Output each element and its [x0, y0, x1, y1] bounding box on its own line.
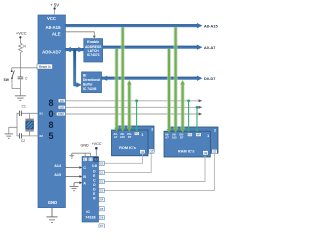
pin CE (ROM 1)	[140, 150, 145, 154]
svg-text:Reset In: Reset In	[39, 65, 51, 69]
svg-text:RD: RD	[135, 133, 139, 136]
svg-text:C2: C2	[21, 139, 25, 143]
pin WR (RAM)	[196, 133, 202, 137]
pin RD (RAM)	[187, 133, 192, 137]
svg-text:R: R	[23, 44, 26, 48]
buffer IC74245	[82, 72, 102, 93]
wire +5V to 8085 VCC	[54, 9, 56, 15]
pin CE (ROM 2)	[149, 149, 154, 153]
pin CE (RAM 2)	[212, 149, 217, 153]
green bus drop A0-A7 to ROM	[114, 49, 119, 132]
svg-text:A0-A7: A0-A7	[204, 45, 216, 50]
wire RD line	[65, 99, 202, 102]
wire A15 to decoder B	[65, 175, 82, 178]
wire X1 pin	[21, 112, 38, 114]
svg-text:0: 0	[48, 109, 53, 119]
svg-text:Directional: Directional	[83, 78, 100, 82]
svg-text:+VCC: +VCC	[92, 142, 102, 146]
ROM back block 2	[116, 126, 154, 152]
decoder IC74138	[82, 157, 98, 223]
crystal X1	[25, 113, 33, 136]
pin Reset In	[37, 64, 53, 69]
svg-text:ALE: ALE	[52, 31, 61, 36]
ground (decoder enables)	[70, 155, 75, 158]
wire A14 to decoder C	[65, 166, 82, 169]
svg-text:A7: A7	[114, 135, 118, 139]
wire WR line	[65, 106, 202, 109]
resistor R	[19, 43, 27, 53]
pin RD	[58, 99, 65, 103]
wire decoder A to ground	[74, 181, 82, 186]
wire CE2 ROM to decoder O1	[104, 153, 151, 172]
svg-text:O5: O5	[100, 208, 104, 211]
svg-text:Buffer: Buffer	[83, 82, 93, 86]
svg-text:2: 2	[151, 128, 153, 132]
pin E1 (decoder)	[83, 157, 87, 161]
ROM front block 1	[112, 130, 149, 156]
node +VCC (decoder enable)	[92, 142, 102, 157]
wire AD bus down to buffer	[73, 50, 82, 88]
svg-text:CE: CE	[213, 151, 217, 154]
ground (decoder A input)	[70, 187, 79, 191]
pin WR	[58, 105, 65, 109]
pin IO/M	[56, 112, 65, 116]
ground (crystal)	[5, 134, 13, 138]
svg-text:O: O	[93, 183, 96, 187]
svg-text:Bi: Bi	[83, 73, 86, 77]
green bus drop D0-D7 to ROM	[127, 80, 132, 131]
pin O6 (decoder)	[99, 216, 104, 220]
svg-text:X1: X1	[39, 112, 43, 116]
node +VCC (reset circuit)	[16, 31, 27, 39]
wire resistor to reset node	[19, 53, 21, 77]
svg-text:WR: WR	[196, 134, 200, 137]
pin O4 (decoder)	[99, 198, 104, 202]
svg-text:ROM IC's: ROM IC's	[119, 146, 136, 150]
pin E3 (decoder)	[94, 157, 98, 161]
ground (reset circuit)	[15, 96, 26, 101]
pin O7 (decoder)	[99, 224, 104, 228]
bus AD0-AD7 8085 to latch	[65, 47, 83, 52]
node +5V	[50, 3, 59, 10]
svg-text:O7: O7	[100, 225, 104, 228]
svg-text:A8-A15: A8-A15	[204, 23, 219, 28]
RAM back block 2	[169, 127, 219, 153]
green bus drop A8-A15 to ROM	[120, 27, 125, 131]
svg-text:B: B	[83, 175, 86, 179]
wire C1 to corner	[17, 113, 20, 136]
capacitor C2	[20, 133, 26, 143]
svg-text:GND: GND	[80, 144, 89, 148]
wire CE1 ROM to decoder O0	[104, 154, 142, 164]
bus A8-A15	[65, 23, 218, 28]
wire capacitor to ground	[19, 79, 21, 96]
capacitor C1	[19, 105, 26, 116]
svg-text:8: 8	[48, 98, 53, 108]
svg-text:O1: O1	[100, 171, 104, 174]
RAM front block 1	[164, 131, 210, 157]
pin RD (ROM)	[134, 132, 139, 136]
green bus drop D0-D7 to RAM	[180, 80, 185, 133]
pin O0 (decoder)	[99, 161, 104, 165]
svg-text:AD0-AD7: AD0-AD7	[42, 49, 61, 54]
svg-text:C: C	[25, 77, 28, 81]
svg-text:VCC: VCC	[47, 16, 56, 21]
wire X2 pin	[21, 135, 38, 137]
svg-text:1: 1	[141, 133, 143, 137]
svg-text:D0-D7: D0-D7	[204, 76, 216, 81]
svg-text:WR: WR	[59, 105, 64, 109]
svg-text:A: A	[83, 181, 86, 185]
green wire RD to ROM	[135, 100, 138, 132]
svg-text:A8-A15: A8-A15	[46, 25, 62, 30]
wire ALE to latch enable	[65, 32, 95, 39]
svg-text:O2: O2	[100, 181, 104, 184]
svg-text:CE: CE	[150, 150, 154, 153]
svg-text:A15: A15	[54, 173, 61, 177]
svg-text:O3: O3	[100, 190, 104, 193]
svg-text:3:8: 3:8	[92, 164, 97, 168]
green wire WR to RAM	[195, 106, 198, 132]
svg-text:A15: A15	[120, 135, 125, 139]
ground (8085 GND)	[46, 208, 57, 223]
svg-text:74138: 74138	[85, 215, 95, 219]
pin O1 (decoder)	[99, 170, 104, 174]
bus D0-D7 from buffer	[102, 76, 217, 81]
svg-text:2: 2	[214, 129, 216, 133]
wire reset node to Reset In pin	[12, 67, 39, 69]
svg-text:D7: D7	[128, 135, 132, 139]
wire +VCC to resistor	[19, 38, 21, 43]
svg-text:5: 5	[48, 131, 53, 141]
svg-text:A14: A14	[54, 164, 62, 168]
capacitor C	[18, 77, 28, 81]
svg-text:RAM IC's: RAM IC's	[178, 149, 195, 153]
svg-text:CE: CE	[141, 151, 145, 154]
pin E2 (decoder)	[88, 157, 92, 161]
svg-text:RD: RD	[60, 99, 64, 103]
svg-text:O4: O4	[100, 199, 104, 202]
wire CE2 RAM to decoder O3	[104, 153, 214, 191]
svg-text:A15: A15	[172, 136, 177, 140]
pin O5 (decoder)	[99, 207, 104, 211]
svg-text:GND: GND	[48, 200, 58, 205]
green bus drop A8-A15 to RAM	[173, 27, 178, 133]
wire IO/M line	[65, 113, 202, 116]
address latch IC74373	[84, 39, 103, 62]
svg-text:O0: O0	[100, 162, 104, 165]
svg-text:CE: CE	[204, 152, 208, 155]
address latch IC74373 labels	[85, 40, 102, 57]
svg-text:RD: RD	[188, 134, 192, 137]
switch SW	[4, 68, 21, 89]
svg-text:C: C	[83, 166, 86, 170]
svg-text:A7: A7	[165, 136, 169, 140]
pin CE (RAM 1)	[203, 151, 208, 155]
svg-text:X2: X2	[39, 134, 43, 138]
svg-text:IC: IC	[86, 210, 90, 214]
node GND (decoder enables)	[72, 144, 91, 158]
svg-text:O6: O6	[100, 217, 104, 220]
svg-text:D7: D7	[180, 136, 184, 140]
svg-text:+VCC: +VCC	[16, 31, 27, 36]
green wire RD to RAM	[187, 100, 190, 133]
svg-text:8: 8	[48, 120, 53, 130]
svg-text:SW: SW	[4, 78, 10, 82]
svg-text:+ 5V: + 5V	[50, 3, 59, 8]
wire CE1 RAM to decoder O2	[104, 154, 205, 181]
pin O2 (decoder)	[99, 179, 104, 183]
8085 microprocessor U1	[38, 15, 65, 208]
svg-text:IO/M: IO/M	[58, 112, 65, 116]
pin O3 (decoder)	[99, 189, 104, 193]
svg-text:C1: C1	[22, 105, 26, 109]
bus A0-A7 latch to memories	[103, 45, 217, 51]
svg-text:IC 74245: IC 74245	[83, 87, 97, 91]
wire crystal net to ground	[9, 127, 17, 134]
green bus drop A0-A7 to RAM	[167, 49, 172, 133]
svg-text:1: 1	[207, 134, 209, 138]
svg-text:IC74373: IC74373	[87, 53, 100, 57]
svg-text:Enable: Enable	[87, 40, 99, 44]
